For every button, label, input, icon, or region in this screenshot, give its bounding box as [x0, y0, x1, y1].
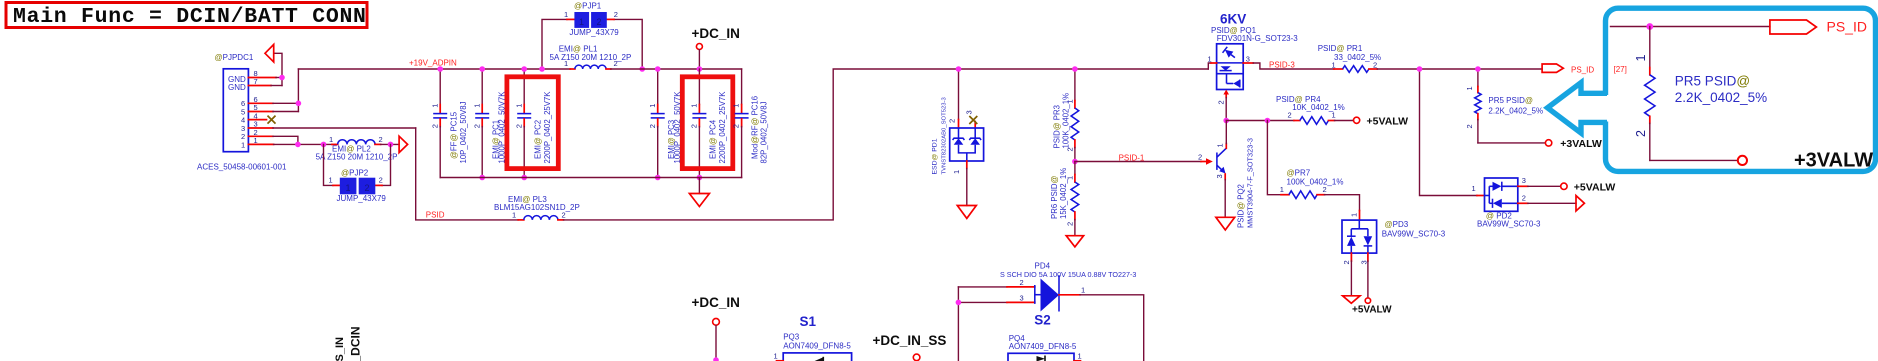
- ground (PD1): [957, 206, 976, 219]
- ground (PD3): [1343, 296, 1360, 304]
- connector PJPDC1: [197, 53, 287, 171]
- svg-text:2: 2: [648, 124, 657, 128]
- junction PJP1 left: [539, 66, 545, 72]
- svg-text:2: 2: [1634, 130, 1648, 137]
- svg-text:PS_ID: PS_ID: [1571, 65, 1594, 74]
- svg-text:+3VALW: +3VALW: [1560, 138, 1602, 150]
- svg-text:1: 1: [1332, 60, 1336, 69]
- callout arrow (cyan): [1548, 83, 1608, 133]
- svg-text:@PJP2: @PJP2: [341, 168, 369, 177]
- wire PL2 to arrow: [381, 143, 400, 145]
- ground (PR6): [1066, 236, 1083, 247]
- junction PC1 top: [479, 66, 485, 72]
- rail after PL1: [611, 68, 742, 70]
- wire PQ1 pin2 down: [1225, 98, 1227, 121]
- svg-text:2: 2: [732, 124, 741, 128]
- svg-text:3: 3: [1020, 294, 1024, 303]
- ESD diode PD1: [932, 69, 984, 206]
- svg-text:1: 1: [564, 10, 568, 19]
- svg-text:2.2K_0402_5%: 2.2K_0402_5%: [1488, 107, 1543, 116]
- pin 8 wire: [248, 77, 276, 79]
- svg-text:2: 2: [514, 124, 523, 128]
- svg-text:2: 2: [1216, 100, 1225, 104]
- svg-text:1: 1: [1350, 213, 1359, 217]
- svg-text:S2: S2: [1034, 313, 1051, 328]
- wire PSID-1: [1075, 161, 1201, 163]
- svg-text:1: 1: [1081, 285, 1085, 294]
- port PS_ID (magnified): [1770, 20, 1817, 34]
- resistor PR5: [1465, 69, 1543, 143]
- svg-text:BLM15AG102SN1D_2P: BLM15AG102SN1D_2P: [494, 203, 580, 212]
- transistor PQ2 (MMST3904): [1198, 138, 1255, 228]
- junction PC15 top: [437, 66, 443, 72]
- svg-text:EMI@ PC2: EMI@ PC2: [534, 120, 543, 159]
- svg-text:AON7409_DFN8-5: AON7409_DFN8-5: [783, 342, 851, 351]
- terminal +5VALW (PR4): [1354, 117, 1360, 123]
- svg-text:+19V_ADPIN: +19V_ADPIN: [409, 58, 457, 67]
- junction PR7 branch: [1265, 118, 1271, 124]
- terminal +5VALW (PD3): [1365, 298, 1370, 303]
- highlight box around PC2: [507, 77, 558, 169]
- transistor PQ4: [1008, 334, 1082, 361]
- svg-text:10K_0402_1%: 10K_0402_1%: [1292, 103, 1345, 112]
- dual diode PD2 (BAV99W): [1472, 176, 1541, 228]
- svg-text:PR5 PSID@: PR5 PSID@: [1488, 96, 1533, 105]
- junction +DC_IN: [697, 66, 703, 72]
- svg-text:2: 2: [1323, 185, 1327, 194]
- capacitor PC1: [472, 69, 506, 178]
- svg-text:2: 2: [1522, 193, 1526, 202]
- resistor PR3: [1053, 69, 1079, 162]
- port PS_ID (small): [1542, 64, 1563, 72]
- callout wire to +3VALW: [1650, 159, 1738, 161]
- svg-text:JUMP_43X79: JUMP_43X79: [569, 28, 619, 37]
- svg-text:AON7409_DFN8-5: AON7409_DFN8-5: [1009, 342, 1077, 351]
- wire riser to +19V rail: [297, 69, 299, 112]
- capacitor PC2: [514, 69, 552, 178]
- svg-text:PS_ID: PS_ID: [1827, 18, 1867, 34]
- svg-text:+DC_IN_SS: +DC_IN_SS: [873, 333, 947, 348]
- svg-text:BAV99W_SC70-3: BAV99W_SC70-3: [1382, 230, 1446, 239]
- svg-text:+5VALW: +5VALW: [1574, 181, 1616, 193]
- inductor PL3: [494, 195, 580, 220]
- off-page arrow left (shield): [265, 45, 274, 63]
- no-connect X on pin 4: [268, 116, 276, 124]
- junction PQ1 pin2: [1223, 118, 1229, 124]
- svg-text:1: 1: [346, 183, 351, 193]
- svg-text:1: 1: [1332, 110, 1336, 119]
- svg-text:@FF@ PC15: @FF@ PC15: [450, 111, 459, 159]
- svg-text:+DC_IN: +DC_IN: [692, 295, 740, 310]
- svg-text:1: 1: [579, 17, 584, 27]
- svg-text:10P_0402_50V8J: 10P_0402_50V8J: [459, 101, 468, 163]
- junction PL2 out: [388, 142, 394, 148]
- transistor PQ1 (FDV301N): [1208, 12, 1299, 105]
- wire PSID net: pin3 down and across: [416, 128, 519, 220]
- terminal +3VALW (small): [1545, 140, 1551, 146]
- junction PJP1 right: [639, 66, 645, 72]
- junction PC2 top: [521, 66, 527, 72]
- svg-text:+3VALW: +3VALW: [1794, 150, 1873, 172]
- svg-text:@PR7: @PR7: [1287, 168, 1311, 177]
- capacitor PC15: [430, 69, 468, 178]
- svg-text:2: 2: [430, 124, 439, 128]
- svg-text:1: 1: [241, 140, 245, 149]
- jumper PJP2: [324, 144, 391, 203]
- junction PR5 top: [1475, 66, 1481, 72]
- junction PC2 bottom: [521, 175, 527, 181]
- wire gnd pins riser: [274, 53, 282, 85]
- svg-text:JUMP_43X79: JUMP_43X79: [337, 194, 387, 203]
- junction callout: [1646, 23, 1653, 30]
- bottom rail of cap bank: [440, 177, 741, 179]
- svg-text:2: 2: [597, 17, 602, 27]
- wire PR7 to PD3: [1325, 195, 1360, 211]
- junction pin1/jumper: [321, 142, 327, 148]
- junction PSID-1: [1072, 159, 1078, 165]
- svg-text:Mod@RF@ PC16: Mod@RF@ PC16: [751, 96, 760, 159]
- jumper PJP1: [542, 2, 642, 69]
- terminal +5VALW (PD2): [1561, 183, 1567, 189]
- svg-text:2: 2: [1065, 222, 1074, 226]
- wire PSID to riser: [564, 69, 1209, 220]
- wire PD2 pin3: [1528, 185, 1561, 187]
- svg-text:3: 3: [1522, 176, 1526, 185]
- pin 3 wire (PSID): [248, 127, 273, 129]
- off-page arrow right (DC in): [399, 136, 408, 152]
- svg-text:1: 1: [1208, 54, 1212, 63]
- svg-text:100K_0402_1%: 100K_0402_1%: [1062, 93, 1071, 149]
- +19V_ADPIN rail: [298, 68, 570, 70]
- svg-text:100K_0402_1%: 100K_0402_1%: [1287, 178, 1344, 187]
- svg-text:BAV99W_SC70-3: BAV99W_SC70-3: [1477, 219, 1541, 228]
- svg-text:GND: GND: [228, 83, 246, 92]
- svg-text:PR6 PSID@: PR6 PSID@: [1050, 175, 1059, 219]
- svg-text:1: 1: [430, 104, 439, 108]
- terminal +DC_IN_SS: [873, 333, 947, 361]
- svg-text:S1: S1: [800, 314, 817, 329]
- svg-text:1: 1: [648, 104, 657, 108]
- svg-text:2: 2: [1020, 278, 1024, 287]
- svg-text:2: 2: [690, 124, 699, 128]
- svg-text:@PJPDC1: @PJPDC1: [215, 53, 254, 62]
- svg-text:1: 1: [1472, 184, 1476, 193]
- transistor PQ3: [774, 333, 852, 361]
- svg-text:2: 2: [948, 119, 957, 123]
- svg-text:PR5 PSID@: PR5 PSID@: [1675, 74, 1750, 89]
- junction PD2 branch: [1417, 66, 1423, 72]
- svg-text:1: 1: [1078, 352, 1082, 361]
- pin 6 wire: [248, 102, 273, 104]
- svg-text:ACES_50458-00601-001: ACES_50458-00601-001: [197, 162, 287, 171]
- svg-text:[27]: [27]: [1614, 65, 1627, 74]
- svg-text:5A Z150 20M 1210_2P: 5A Z150 20M 1210_2P: [316, 153, 398, 162]
- junction S2 pin3: [956, 300, 962, 306]
- svg-text:82P_0402_50V8J: 82P_0402_50V8J: [760, 101, 769, 163]
- terminal +DC_IN (bottom): [692, 295, 740, 361]
- capacitor PC4: [690, 69, 728, 178]
- svg-text:EMI@ PC4: EMI@ PC4: [709, 119, 718, 159]
- svg-text:15K_0402_1%: 15K_0402_1%: [1059, 168, 1068, 219]
- diode PD4 / S2: [958, 262, 1143, 361]
- svg-text:2: 2: [379, 175, 383, 184]
- svg-text:2200P_0402_25V7K: 2200P_0402_25V7K: [543, 91, 552, 164]
- callout wire PS_ID: [1611, 26, 1770, 28]
- svg-text:3: 3: [1359, 260, 1368, 264]
- svg-text:2: 2: [365, 183, 370, 193]
- svg-text:PSID@ PR1: PSID@ PR1: [1318, 44, 1363, 53]
- svg-text:6KV: 6KV: [1220, 12, 1246, 27]
- junction PC3 bottom: [655, 175, 661, 181]
- +DC_IN terminal: [692, 26, 740, 69]
- svg-text:1: 1: [1634, 55, 1648, 62]
- inductor PL2: [316, 135, 398, 162]
- svg-text:3: 3: [1215, 174, 1224, 178]
- pin 2 wire: [248, 135, 273, 137]
- svg-text:TVNST82302AB0_SOT523-3: TVNST82302AB0_SOT523-3: [942, 97, 948, 175]
- ground (PQ2): [1216, 217, 1235, 230]
- resistor PR7: [1267, 121, 1343, 199]
- junction pin1/pin2: [295, 142, 301, 148]
- svg-text:3: 3: [1246, 54, 1250, 63]
- junction PC1 bottom: [479, 175, 485, 181]
- resistor PR5 (magnified): [1634, 27, 1767, 161]
- resistor PR6: [1050, 162, 1079, 236]
- junction PR3 top: [1072, 66, 1078, 72]
- junction PC4 bottom: [697, 175, 703, 181]
- svg-text:1: 1: [732, 104, 741, 108]
- highlight box around PC4: [682, 77, 733, 169]
- pin 7 wire: [248, 85, 271, 87]
- svg-text:_DCIN: _DCIN: [349, 326, 363, 361]
- ground (cap bank): [689, 178, 709, 207]
- wire PQ2 emitter: [1224, 180, 1226, 218]
- svg-text:+DC_IN: +DC_IN: [692, 26, 740, 41]
- svg-text:@PD3: @PD3: [1385, 220, 1409, 229]
- wire PQ1 pin1 step: [1208, 63, 1211, 69]
- svg-text:5A Z150 20M 1210_2P: 5A Z150 20M 1210_2P: [550, 53, 632, 62]
- svg-text:1: 1: [1216, 143, 1225, 147]
- svg-text:S_IN: S_IN: [334, 337, 346, 361]
- dual diode PD3 (BAV99W): [1342, 211, 1446, 298]
- capacitor PC3: [648, 69, 682, 178]
- svg-text:1: 1: [774, 352, 778, 361]
- svg-text:1: 1: [1280, 185, 1284, 194]
- svg-text:PQ3: PQ3: [783, 333, 800, 342]
- svg-text:3: 3: [965, 110, 974, 114]
- pin 5 wire: [248, 111, 273, 113]
- wire PQ2 collector: [1225, 121, 1227, 144]
- svg-text:1: 1: [690, 104, 699, 108]
- svg-text:2: 2: [1373, 60, 1377, 69]
- svg-text:2.2K_0402_5%: 2.2K_0402_5%: [1675, 90, 1767, 105]
- svg-text:FDV301N-G_SOT23-3: FDV301N-G_SOT23-3: [1217, 34, 1298, 43]
- svg-text:1: 1: [952, 170, 961, 174]
- callout highlight box (cyan): [1606, 8, 1876, 171]
- svg-text:Main Func = DCIN/BATT CONN: Main Func = DCIN/BATT CONN: [13, 5, 367, 29]
- inductor PL1: [550, 44, 632, 69]
- svg-text:1: 1: [472, 104, 481, 108]
- off-page arrow right (PD2 pin2): [1576, 196, 1584, 211]
- svg-text:1: 1: [329, 135, 333, 144]
- resistor PR1: [1318, 44, 1381, 72]
- junction +DC_IN bottom: [713, 357, 719, 361]
- junction PD1: [956, 66, 962, 72]
- svg-text:ESD@ PD1: ESD@ PD1: [932, 138, 939, 174]
- svg-text:1: 1: [514, 104, 523, 108]
- svg-text:+5VALW: +5VALW: [1367, 115, 1409, 127]
- junction PC3 top: [655, 66, 661, 72]
- title box: Main Func = DCIN/BATT CONN: [6, 3, 367, 30]
- wire PD2 pin2: [1528, 202, 1576, 204]
- resistor PR4: [1226, 95, 1353, 124]
- svg-text:PSID: PSID: [426, 210, 445, 219]
- svg-text:EMI@ PL1: EMI@ PL1: [559, 44, 598, 53]
- svg-text:PSID-3: PSID-3: [1269, 60, 1295, 69]
- wire PQ1 pin3 to PS_ID rail: [1253, 63, 1334, 69]
- pin 1 wire: [248, 143, 273, 145]
- svg-text:PSID@ PR3: PSID@ PR3: [1053, 105, 1062, 148]
- svg-text:2: 2: [1198, 153, 1202, 162]
- svg-text:@PJP1: @PJP1: [574, 2, 602, 11]
- svg-text:1: 1: [1465, 86, 1474, 90]
- svg-text:2: 2: [379, 135, 383, 144]
- pin 4 stub (no connect): [248, 119, 266, 121]
- wire to PD2: [1420, 69, 1478, 196]
- terminal +3VALW (magnified): [1738, 156, 1747, 165]
- capacitor PC16: [732, 69, 769, 178]
- wire PR1 to port: [1377, 68, 1542, 70]
- svg-text:2: 2: [1288, 110, 1292, 119]
- junction pins 5-6: [296, 101, 302, 107]
- svg-text:MMST3904-7-F_SOT323-3: MMST3904-7-F_SOT323-3: [1246, 138, 1255, 228]
- svg-text:PSID-1: PSID-1: [1119, 153, 1145, 162]
- junction pins 7-8: [279, 75, 285, 81]
- wire PR5 to +3VALW: [1478, 142, 1545, 144]
- svg-text:1: 1: [329, 175, 333, 184]
- svg-text:+5VALW: +5VALW: [1352, 304, 1392, 315]
- svg-text:2: 2: [472, 124, 481, 128]
- svg-text:2: 2: [1342, 260, 1351, 264]
- svg-text:2: 2: [1465, 124, 1474, 128]
- svg-text:PSID@ PQ2: PSID@ PQ2: [1237, 184, 1246, 228]
- svg-text:2: 2: [614, 10, 618, 19]
- svg-text:2200P_0402_25V7K: 2200P_0402_25V7K: [718, 91, 727, 164]
